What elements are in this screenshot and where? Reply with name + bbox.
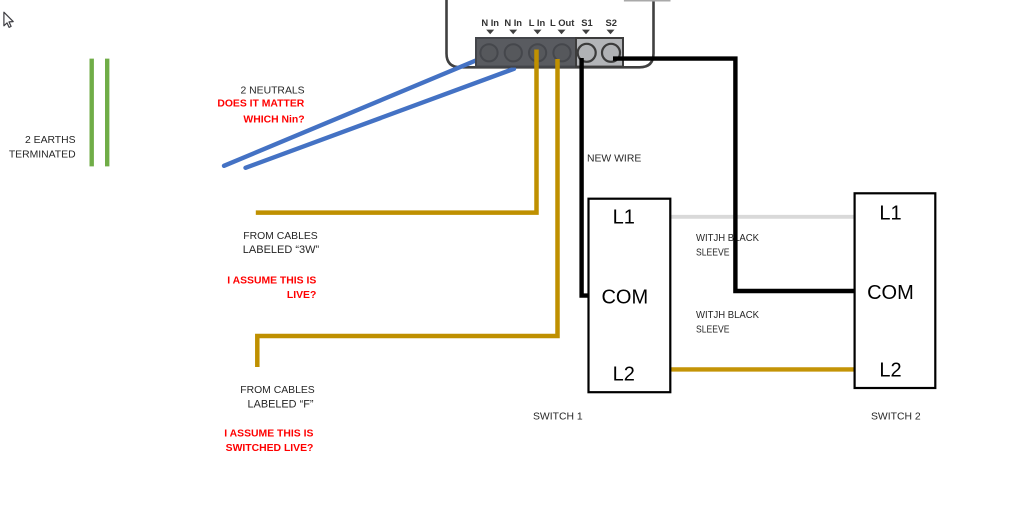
svg-text:SLEEVE: SLEEVE	[696, 248, 730, 259]
svg-text:2 NEUTRALS: 2 NEUTRALS	[240, 85, 304, 96]
pin pointer triangle 6	[607, 30, 615, 35]
green earth wire 1	[89, 59, 93, 167]
pin pointer triangle 3	[534, 30, 542, 35]
svg-text:LABELED “3W”: LABELED “3W”	[243, 244, 320, 256]
pin pointer triangle 1	[486, 30, 494, 35]
svg-text:SWITCHED LIVE?: SWITCHED LIVE?	[226, 443, 314, 454]
terminal N In (1)	[480, 44, 497, 61]
svg-text:L In: L In	[529, 17, 546, 28]
svg-text:S2: S2	[605, 17, 616, 28]
svg-text:DOES IT MATTER: DOES IT MATTER	[217, 99, 304, 110]
green earth wire 2	[105, 59, 109, 167]
svg-text:SLEEVE: SLEEVE	[696, 325, 730, 336]
terminal L In	[529, 44, 546, 61]
svg-text:N In: N In	[481, 17, 499, 28]
svg-text:COM: COM	[867, 282, 914, 304]
svg-text:NEW WIRE: NEW WIRE	[587, 153, 641, 164]
svg-text:N In: N In	[504, 17, 522, 28]
smart relay device outline	[447, 0, 654, 67]
svg-text:L Out: L Out	[550, 17, 574, 28]
svg-text:SWITCH 1: SWITCH 1	[533, 411, 583, 422]
svg-text:WHICH Nin?: WHICH Nin?	[243, 115, 304, 126]
gold switched-live wire from L Out to cables "F"	[257, 59, 557, 367]
svg-text:LABELED “F”: LABELED “F”	[248, 398, 314, 410]
terminal block: switch (light) section S1 / S2	[576, 38, 623, 67]
svg-text:WITJH BLACK: WITJH BLACK	[696, 233, 759, 244]
grey sleeved wire between L1 terminals	[670, 215, 854, 219]
blue neutral wire 2 (to N In)	[246, 69, 515, 168]
svg-text:TERMINATED: TERMINATED	[9, 150, 76, 161]
svg-text:L1: L1	[879, 203, 901, 225]
terminal L Out	[553, 44, 570, 61]
black new wire from S2 to SWITCH 2 COM	[613, 59, 855, 291]
svg-text:L2: L2	[613, 364, 635, 386]
svg-text:FROM CABLES: FROM CABLES	[243, 231, 318, 242]
terminal S2	[602, 44, 620, 62]
terminal block: main (dark) section N In / N In / L In / L Out	[476, 38, 576, 67]
terminal N In (2)	[505, 44, 522, 61]
switch 2 box	[855, 193, 936, 388]
svg-text:WITJH BLACK: WITJH BLACK	[696, 310, 759, 321]
svg-text:S1: S1	[581, 17, 592, 28]
device top tab (cut off by image edge)	[624, 0, 671, 2]
svg-text:I ASSUME THIS IS: I ASSUME THIS IS	[227, 276, 316, 287]
svg-text:2 EARTHS: 2 EARTHS	[25, 135, 76, 146]
svg-text:LIVE?: LIVE?	[287, 290, 316, 301]
black wire from S1 down to SWITCH 1 COM	[582, 58, 589, 296]
svg-text:COM: COM	[601, 286, 648, 308]
switch 1 box	[589, 199, 671, 393]
gold live wire from L In to cables "3W"	[256, 50, 537, 213]
svg-text:L1: L1	[613, 206, 635, 228]
svg-text:FROM CABLES: FROM CABLES	[240, 385, 315, 396]
svg-text:I ASSUME THIS IS: I ASSUME THIS IS	[224, 429, 313, 440]
pin pointer triangle 5	[582, 30, 590, 35]
svg-text:SWITCH 2: SWITCH 2	[871, 411, 921, 422]
terminal S1	[578, 44, 596, 62]
mouse cursor	[4, 12, 13, 27]
blue neutral wire 1 (to N In)	[224, 60, 477, 166]
gold sleeved wire between L2 terminals	[670, 367, 854, 371]
pin pointer triangle 4	[558, 30, 566, 35]
pin pointer triangle 2	[509, 30, 517, 35]
svg-text:L2: L2	[879, 360, 901, 382]
